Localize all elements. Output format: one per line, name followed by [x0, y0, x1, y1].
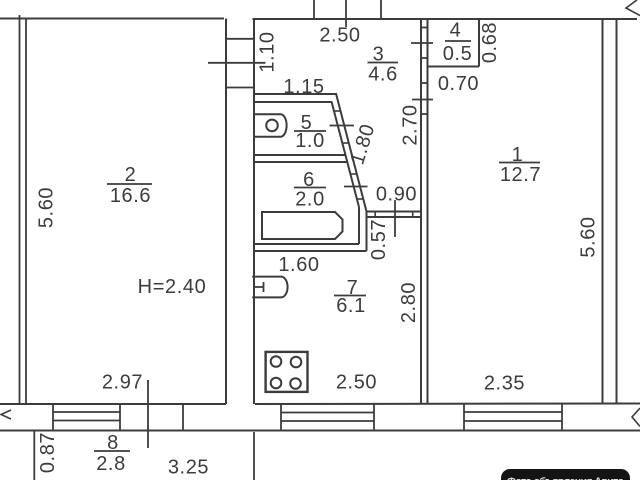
room 6 label	[294, 169, 326, 211]
window W2 right tick	[373, 404, 375, 431]
duct wall vertical right	[366, 212, 368, 252]
svg-text:2.0: 2.0	[295, 189, 325, 211]
ladder rung 4	[421, 113, 428, 115]
svg-text:Фото объявления Авито: Фото объявления Авито	[507, 476, 624, 481]
svg-text:12.7: 12.7	[500, 164, 541, 186]
window W1 line 1	[53, 411, 120, 413]
wire: middle block left wall	[253, 19, 255, 404]
stove burner top-right	[291, 357, 302, 368]
wire: left outer wall line 2	[25, 19, 27, 405]
ladder rung 2	[421, 57, 428, 59]
svg-text:5.60: 5.60	[578, 216, 600, 257]
ladder rung 3	[421, 82, 428, 84]
svg-text:5.60: 5.60	[36, 187, 58, 228]
svg-text:16.6: 16.6	[110, 185, 151, 207]
wire: room 5 top wall outer	[254, 93, 337, 95]
window W2 left tick	[280, 404, 282, 431]
wire: right outer wall line 1	[602, 19, 604, 403]
wire: bottom band top line right	[255, 403, 640, 406]
svg-text:2.50: 2.50	[336, 372, 377, 394]
dimension tick on ladder wall lower	[412, 99, 433, 101]
diagonal rung 2	[342, 142, 349, 144]
svg-text:2: 2	[125, 164, 137, 186]
wire: right outer wall line 2	[616, 19, 618, 403]
svg-text:0.90: 0.90	[376, 184, 417, 206]
svg-text:1.10: 1.10	[257, 31, 279, 72]
svg-text:2.70: 2.70	[400, 104, 422, 145]
wire: room 5 bottom wall outer	[254, 154, 346, 156]
wall between room 3/7 and room 1 (ladder) line 1	[420, 19, 422, 404]
washbasin in room 5	[254, 114, 287, 137]
door opening room 2 to room 3 rung bottom	[226, 87, 254, 89]
room 4 right wall	[478, 19, 480, 67]
svg-text:2.8: 2.8	[96, 453, 126, 475]
wire: room 6 bottom wall lower	[254, 250, 367, 252]
svg-text:4: 4	[450, 20, 462, 42]
band tick at x 183	[182, 404, 184, 431]
room 4 label	[443, 20, 473, 66]
top right dimension arrowhead	[626, 0, 640, 16]
wire: bottom band top line left	[0, 403, 226, 405]
wire: room 5 bottom wall inner	[254, 161, 348, 163]
window W3 line 2	[464, 420, 562, 422]
svg-text:6.1: 6.1	[336, 295, 366, 317]
window W1 left tick	[52, 404, 54, 431]
dimension tick for 0.90	[344, 186, 368, 188]
room 4 bottom wall	[428, 66, 480, 68]
dimension tick on ladder wall upper	[411, 42, 433, 44]
top dimension extension line 2	[345, 0, 347, 27]
wire: top wall of room 2	[0, 18, 224, 20]
svg-text:2.35: 2.35	[484, 373, 525, 395]
diagonal rung 1	[334, 110, 341, 112]
top dimension extension line 1	[313, 0, 315, 19]
svg-text:0.5: 0.5	[443, 43, 473, 65]
room 8 label	[94, 432, 130, 475]
partition band top line	[367, 211, 421, 213]
svg-text:3.25: 3.25	[168, 457, 209, 479]
svg-text:1.0: 1.0	[295, 130, 325, 152]
right edge dimension arrowhead	[632, 408, 640, 427]
stove burner top-left	[271, 356, 282, 367]
stove burner bottom-right	[290, 378, 301, 389]
wall between room 3/7 and room 1 (ladder) line 2	[427, 19, 429, 404]
dimension extension line below band center	[253, 432, 255, 480]
partition band tick 1	[374, 212, 376, 218]
window W1 line 2	[53, 420, 120, 422]
svg-text:2.97: 2.97	[102, 372, 143, 394]
room 3 label	[368, 44, 399, 86]
door opening room 2 to room 3 rung top	[226, 38, 254, 40]
window W3 right tick	[561, 404, 563, 431]
dimension extension line right of 2.97	[147, 380, 149, 448]
watermark badge	[501, 469, 630, 485]
dimension leader below 0.90	[394, 200, 396, 237]
svg-text:1.15: 1.15	[283, 76, 324, 98]
room 1 label	[499, 144, 541, 186]
partition band bottom line	[367, 216, 421, 218]
ladder rung 1	[421, 27, 428, 29]
wire: room 2 right wall	[225, 19, 227, 405]
wire: bottom band bottom line	[0, 430, 640, 432]
wire: top wall middle and right section	[253, 18, 638, 20]
diagonal wall outer line	[336, 94, 367, 212]
window W2 line 1	[281, 412, 374, 414]
stove burner bottom-left	[271, 378, 282, 389]
window W1 right tick	[119, 404, 121, 431]
duct wall vertical left	[358, 207, 360, 244]
svg-text:0.87: 0.87	[37, 432, 59, 473]
svg-text:0.57: 0.57	[368, 219, 390, 260]
window W3 left tick	[463, 404, 465, 431]
svg-text:0.70: 0.70	[438, 73, 479, 95]
wire: room 6 bottom wall upper	[254, 243, 359, 245]
diagonal rung 3	[350, 173, 356, 175]
wire: room 5 top wall inner	[254, 101, 332, 103]
svg-text:4.6: 4.6	[368, 64, 398, 86]
bathtub in room 6	[262, 212, 343, 239]
wire: left outer wall line 1	[19, 15, 21, 404]
svg-text:2.80: 2.80	[398, 282, 420, 323]
svg-text:0.68: 0.68	[479, 22, 501, 63]
room 5 label	[294, 112, 326, 152]
left edge dimension arrowhead	[1, 410, 11, 419]
washbasin circle	[266, 120, 278, 132]
top dimension extension line 3	[380, 0, 382, 19]
svg-text:H=2.40: H=2.40	[138, 276, 207, 298]
toilet tank mark vertical	[263, 282, 265, 292]
svg-text:2.50: 2.50	[319, 24, 360, 46]
partition band tick 2	[412, 212, 414, 218]
room 2 label	[107, 164, 152, 207]
diagonal wall inner line	[332, 102, 360, 208]
diagonal rung 4	[357, 198, 363, 200]
stove in room 7	[266, 352, 308, 392]
dimension extension line bottom left	[33, 431, 35, 481]
dimension tick for 1.80	[330, 125, 355, 127]
svg-text:1.60: 1.60	[278, 254, 319, 276]
window W3 line 1	[464, 411, 562, 413]
toilet in room 7	[252, 277, 287, 298]
toilet tank mark horizontal	[255, 286, 264, 288]
dimension line for 1.10	[208, 62, 266, 64]
room 7 label	[334, 277, 366, 317]
window W2 line 2	[281, 420, 374, 422]
